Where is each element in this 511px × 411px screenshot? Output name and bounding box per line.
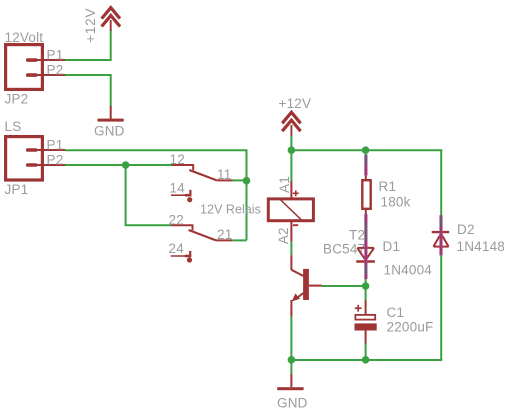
node junction base/D1/C1 <box>362 282 370 290</box>
svg-text:P1: P1 <box>47 138 64 153</box>
wire coil A2 to T2 collector <box>290 242 292 256</box>
svg-text:A1: A1 <box>277 176 292 193</box>
svg-text:JP1: JP1 <box>5 182 29 197</box>
relay contact 12/11 <box>172 164 233 180</box>
svg-text:P1: P1 <box>47 48 64 63</box>
wire JP1.P1 to relay common rail <box>65 150 247 180</box>
svg-text:14: 14 <box>170 180 186 195</box>
wire contact 11 to rail <box>233 179 246 181</box>
svg-text:GND: GND <box>94 124 125 139</box>
transistor T2 <box>291 255 321 316</box>
svg-text:R1: R1 <box>379 179 397 194</box>
wire node to C1 <box>365 286 367 300</box>
wire +12V to top rail <box>290 136 292 150</box>
svg-text:11: 11 <box>217 167 231 182</box>
node junction at pin 11 <box>243 177 251 185</box>
svg-text:P2: P2 <box>47 153 64 168</box>
svg-text:12Volt: 12Volt <box>5 30 44 45</box>
C1 polarity + <box>355 305 362 312</box>
wire C1 to bottom rail <box>365 344 367 361</box>
svg-text:22: 22 <box>169 213 184 228</box>
svg-text:21: 21 <box>217 227 232 242</box>
svg-text:LS: LS <box>5 119 22 134</box>
connector JP2 <box>6 45 65 90</box>
wire rail pin11 to pin21 <box>246 181 248 241</box>
svg-text:+12V: +12V <box>83 8 98 43</box>
svg-text:D1: D1 <box>383 239 401 254</box>
svg-text:1N4004: 1N4004 <box>384 263 433 278</box>
wire rail down to coil <box>290 150 292 181</box>
svg-text:12: 12 <box>170 152 185 167</box>
wire JP2.P1 to +12V <box>65 30 111 60</box>
node junction at JP1.P2 <box>122 161 130 169</box>
supply +12V symbol 2 <box>282 112 300 136</box>
svg-text:C1: C1 <box>387 305 405 320</box>
svg-text:180k: 180k <box>381 195 411 210</box>
svg-text:D2: D2 <box>457 222 475 237</box>
svg-text:A2: A2 <box>276 227 291 244</box>
relay contact 22/21 <box>171 224 232 240</box>
node junction coil top <box>288 146 296 154</box>
wire JP2.P2 to GND <box>65 75 111 106</box>
resistor R1 <box>362 154 370 214</box>
svg-text:P2: P2 <box>47 63 64 78</box>
wire T2 emitter to bottom rail <box>290 317 292 361</box>
ground GND symbol 2 <box>277 374 303 390</box>
diode D1 <box>356 214 375 279</box>
svg-text:12V Relais: 12V Relais <box>200 203 261 217</box>
wire bottom rail <box>291 359 442 361</box>
wire JP1.P2 to contact 12 <box>65 164 172 166</box>
connector JP1 <box>6 137 65 180</box>
relay coil K1 <box>268 181 313 242</box>
svg-text:JP2: JP2 <box>5 92 29 107</box>
svg-text:1N4148: 1N4148 <box>457 239 506 254</box>
node junction emitter/GND <box>288 356 296 364</box>
capacitor C1 <box>355 300 377 344</box>
node junction C1 bottom <box>362 356 370 364</box>
svg-text:2200uF: 2200uF <box>387 320 434 335</box>
svg-text:GND: GND <box>277 396 308 411</box>
wire D1 to base node <box>365 279 367 286</box>
coil polarity - <box>293 224 298 226</box>
node junction R1 top <box>362 146 370 154</box>
wire top rail <box>291 149 442 151</box>
wire node to GND 2 <box>290 360 292 374</box>
relay contact 14 (normally open) <box>171 190 192 202</box>
supply +12V symbol 1 <box>102 8 120 31</box>
svg-text:24: 24 <box>169 241 185 256</box>
wire contact 21 to rail <box>232 239 246 241</box>
ground GND symbol 1 <box>98 106 124 122</box>
relay contact 24 (normally open) <box>171 251 192 263</box>
wire T2 base to node <box>322 285 366 287</box>
wire junction down to contact 22 <box>126 165 171 225</box>
svg-text:+12V: +12V <box>279 96 312 111</box>
svg-text:T2: T2 <box>349 228 365 243</box>
diode D2 <box>432 150 450 360</box>
coil polarity + <box>293 190 299 196</box>
